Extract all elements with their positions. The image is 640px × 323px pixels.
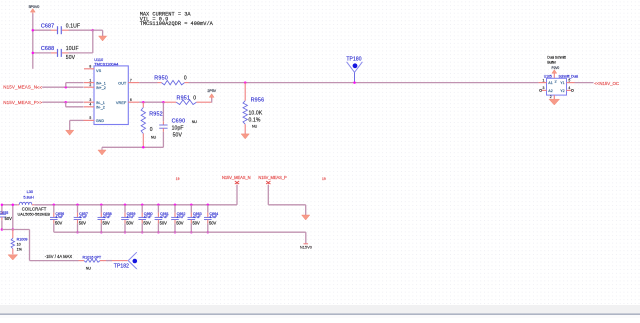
svg-text:1: 1 bbox=[543, 78, 545, 82]
svg-text:2P5V: 2P5V bbox=[207, 89, 216, 93]
wire bbox=[139, 101, 163, 103]
pin Y1 bbox=[567, 82, 575, 84]
svg-text:Dual Schmitt: Dual Schmitt bbox=[547, 56, 565, 60]
ground bbox=[302, 215, 310, 220]
svg-text:7: 7 bbox=[130, 78, 132, 82]
svg-text:8: 8 bbox=[89, 64, 91, 68]
pin 2 stub bbox=[84, 86, 94, 88]
junction bbox=[76, 204, 79, 207]
svg-text:2: 2 bbox=[89, 83, 91, 87]
junction bbox=[53, 204, 56, 207]
svg-text:NU: NU bbox=[86, 266, 92, 270]
status bar bbox=[0, 305, 640, 318]
svg-text:50V: 50V bbox=[209, 220, 217, 225]
wire bbox=[305, 232, 307, 244]
wire bbox=[65, 83, 67, 88]
svg-text:Y2: Y2 bbox=[560, 89, 564, 93]
net stub bbox=[304, 243, 309, 245]
svg-text:OUT: OUT bbox=[118, 80, 127, 85]
wire bbox=[112, 260, 128, 262]
svg-text:50V: 50V bbox=[126, 220, 134, 225]
junction bbox=[207, 204, 210, 207]
wire bbox=[69, 29, 93, 31]
junction bbox=[353, 81, 356, 84]
svg-text:1%: 1% bbox=[17, 247, 23, 251]
junction bbox=[207, 231, 210, 234]
junction bbox=[124, 231, 127, 234]
wire bbox=[33, 29, 51, 31]
junction bbox=[65, 86, 68, 89]
svg-text:R956: R956 bbox=[251, 97, 265, 103]
svg-text:TP182: TP182 bbox=[114, 263, 129, 269]
svg-text:Y1: Y1 bbox=[560, 81, 564, 85]
svg-text:IN-_2: IN-_2 bbox=[96, 106, 105, 110]
junction bbox=[1, 204, 4, 207]
pin 7 stub OUT bbox=[128, 82, 139, 84]
svg-text:19: 19 bbox=[176, 177, 180, 181]
junction bbox=[1, 228, 4, 231]
wire bbox=[93, 29, 103, 31]
wire bbox=[2, 204, 17, 206]
wire bbox=[32, 14, 34, 69]
junction bbox=[174, 204, 177, 207]
svg-text:50V: 50V bbox=[160, 220, 168, 225]
svg-text:47uF: 47uF bbox=[103, 215, 111, 219]
svg-text:50V: 50V bbox=[173, 133, 183, 139]
ground bbox=[549, 99, 560, 105]
junction bbox=[141, 204, 144, 207]
wire bbox=[70, 119, 84, 121]
junction bbox=[244, 81, 247, 84]
wire bbox=[34, 204, 237, 206]
capacitor C661 bbox=[157, 205, 159, 213]
ic U110 box bbox=[94, 66, 128, 125]
junction bbox=[141, 231, 144, 234]
svg-text:R1009: R1009 bbox=[17, 238, 28, 242]
wire bbox=[42, 101, 83, 103]
wire bbox=[69, 52, 93, 54]
pin 4 stub bbox=[84, 106, 94, 108]
svg-text:0: 0 bbox=[150, 127, 153, 133]
svg-text:47uF: 47uF bbox=[177, 215, 185, 219]
svg-text:-15V / 4A MAX: -15V / 4A MAX bbox=[45, 254, 73, 259]
junction bbox=[92, 29, 95, 32]
svg-text:N15V_MEAS_N: N15V_MEAS_N bbox=[222, 175, 251, 180]
svg-text:IN-_1: IN-_1 bbox=[96, 101, 105, 105]
svg-text:47uF: 47uF bbox=[209, 215, 217, 219]
svg-text:IN+_2: IN+_2 bbox=[96, 86, 106, 90]
capacitor C663 bbox=[190, 205, 192, 213]
svg-text:3: 3 bbox=[543, 86, 545, 90]
svg-text:VS: VS bbox=[96, 68, 102, 73]
svg-text:5P0V0: 5P0V0 bbox=[29, 5, 40, 9]
capacitor C659 bbox=[124, 205, 126, 213]
svg-text:50V: 50V bbox=[55, 220, 63, 225]
svg-text:50V: 50V bbox=[79, 220, 87, 225]
svg-text:6: 6 bbox=[130, 98, 132, 102]
junction bbox=[32, 29, 35, 32]
svg-text:IN+_1: IN+_1 bbox=[96, 82, 106, 86]
svg-text:5.8uH: 5.8uH bbox=[23, 195, 34, 200]
svg-text:10pF: 10pF bbox=[172, 125, 184, 131]
capacitor C660 bbox=[141, 205, 143, 213]
svg-text:0: 0 bbox=[184, 75, 187, 81]
svg-text:50V: 50V bbox=[66, 55, 76, 61]
svg-text:N15V0: N15V0 bbox=[300, 245, 313, 250]
svg-text:C687: C687 bbox=[41, 24, 54, 30]
junction bbox=[174, 231, 177, 234]
wire bbox=[65, 102, 67, 107]
wire bbox=[575, 82, 594, 84]
svg-text:0: 0 bbox=[193, 95, 196, 101]
ground bbox=[66, 130, 74, 135]
svg-text:L30: L30 bbox=[27, 189, 34, 194]
capacitor C690 bbox=[162, 102, 164, 121]
svg-text:C655: C655 bbox=[0, 211, 8, 215]
ground bbox=[241, 134, 249, 139]
svg-text:Buffer: Buffer bbox=[547, 61, 556, 65]
svg-text:2: 2 bbox=[550, 95, 552, 99]
wire bbox=[30, 260, 79, 262]
wire bbox=[54, 231, 306, 233]
svg-text:50V: 50V bbox=[143, 220, 151, 225]
wire bbox=[267, 185, 269, 205]
svg-text:10.0K: 10.0K bbox=[249, 111, 263, 117]
pin GND U105 bbox=[553, 95, 555, 99]
ground bbox=[98, 150, 106, 155]
pin VS stub bbox=[84, 68, 94, 70]
svg-text:VREF: VREF bbox=[116, 100, 127, 105]
wire bbox=[2, 229, 30, 231]
svg-text:>>: >> bbox=[37, 100, 43, 105]
wire bbox=[42, 86, 83, 88]
svg-text:TMCS1100A2QDR = 400mV/A: TMCS1100A2QDR = 400mV/A bbox=[140, 21, 214, 27]
junction bbox=[100, 204, 103, 207]
svg-text:<<N15V_OC: <<N15V_OC bbox=[594, 81, 619, 86]
junction bbox=[142, 101, 145, 104]
ground bbox=[8, 255, 18, 260]
svg-text:0.1%: 0.1% bbox=[249, 117, 261, 123]
svg-text:5: 5 bbox=[568, 78, 570, 82]
svg-text:N15V_MEAS_N: N15V_MEAS_N bbox=[3, 85, 37, 90]
svg-text:<<: << bbox=[37, 85, 43, 90]
junction bbox=[157, 204, 160, 207]
svg-text:0.1UF: 0.1UF bbox=[66, 24, 80, 30]
svg-text:N15V_MEAS_P: N15V_MEAS_P bbox=[258, 175, 287, 180]
capacitor C664 bbox=[207, 205, 209, 213]
wire bbox=[29, 230, 31, 261]
wire bbox=[33, 52, 51, 54]
wire bbox=[92, 30, 94, 53]
svg-text:10UF: 10UF bbox=[66, 46, 79, 52]
wire bbox=[12, 205, 14, 230]
svg-text:1: 1 bbox=[89, 78, 91, 82]
wire bbox=[236, 185, 238, 205]
resistor R956 bbox=[244, 83, 246, 101]
pin 5 stub GND bbox=[84, 119, 95, 121]
svg-text:47uF: 47uF bbox=[193, 215, 201, 219]
svg-text:NU: NU bbox=[192, 120, 198, 124]
junction bbox=[76, 231, 79, 234]
wire bbox=[106, 260, 112, 262]
svg-text:NU: NU bbox=[151, 136, 157, 140]
junction bbox=[190, 231, 193, 234]
pin Y2 bbox=[567, 89, 572, 91]
resistor R1009 bbox=[12, 230, 14, 239]
pin 1 stub bbox=[84, 82, 94, 84]
svg-text:47uF: 47uF bbox=[79, 215, 87, 219]
ic U105 box bbox=[547, 78, 567, 95]
pin 3 stub bbox=[84, 101, 94, 103]
svg-text:4: 4 bbox=[568, 86, 570, 90]
svg-text:47uF: 47uF bbox=[55, 215, 63, 219]
junction bbox=[190, 204, 193, 207]
wire bbox=[102, 146, 163, 148]
capacitor C655 bbox=[1, 205, 3, 212]
capacitor C662 bbox=[174, 205, 176, 213]
svg-text:R952: R952 bbox=[149, 112, 163, 118]
junction bbox=[142, 146, 145, 149]
svg-text:47uF: 47uF bbox=[160, 215, 168, 219]
capacitor C658 bbox=[100, 205, 102, 213]
svg-text:UAL5050-562MEB: UAL5050-562MEB bbox=[18, 211, 51, 216]
pin 6 stub VREF bbox=[128, 101, 139, 103]
svg-text:47uF: 47uF bbox=[127, 215, 135, 219]
capacitor C656 bbox=[53, 205, 55, 213]
pin A2 bbox=[542, 89, 547, 91]
junction bbox=[32, 52, 35, 55]
svg-text:C688: C688 bbox=[41, 46, 54, 52]
svg-text:10: 10 bbox=[17, 243, 21, 247]
svg-text:19: 19 bbox=[322, 177, 326, 181]
svg-text:50V: 50V bbox=[193, 220, 201, 225]
wire bbox=[163, 101, 176, 103]
svg-text:GND: GND bbox=[96, 119, 105, 123]
svg-text:TP180: TP180 bbox=[346, 57, 361, 63]
svg-text:U105: U105 bbox=[544, 74, 552, 78]
wire bbox=[189, 82, 539, 84]
junction bbox=[12, 228, 15, 231]
svg-text:5: 5 bbox=[89, 116, 91, 120]
pin A1 bbox=[539, 82, 547, 84]
svg-text:4: 4 bbox=[89, 103, 91, 107]
capacitor C657 bbox=[77, 205, 79, 213]
svg-text:50V: 50V bbox=[5, 216, 13, 221]
junction bbox=[64, 101, 67, 104]
svg-text:N15V_MEAS_P: N15V_MEAS_P bbox=[3, 100, 37, 105]
ground bbox=[99, 36, 107, 41]
svg-text:A1: A1 bbox=[548, 81, 552, 85]
junction bbox=[124, 204, 127, 207]
junction bbox=[100, 231, 103, 234]
junction bbox=[12, 204, 15, 207]
wire bbox=[139, 82, 157, 84]
svg-text:A2: A2 bbox=[548, 89, 552, 93]
svg-text:50V: 50V bbox=[103, 220, 111, 225]
svg-text:NU: NU bbox=[252, 124, 258, 128]
svg-text:R950: R950 bbox=[154, 75, 168, 81]
wire bbox=[211, 98, 213, 103]
junction bbox=[157, 231, 160, 234]
svg-text:47uF: 47uF bbox=[144, 215, 152, 219]
wire bbox=[101, 147, 103, 150]
svg-text:3: 3 bbox=[89, 98, 91, 102]
svg-text:P2V0: P2V0 bbox=[552, 66, 560, 70]
junction bbox=[162, 101, 165, 104]
svg-text:C690: C690 bbox=[172, 118, 186, 124]
svg-text:50V: 50V bbox=[176, 220, 184, 225]
